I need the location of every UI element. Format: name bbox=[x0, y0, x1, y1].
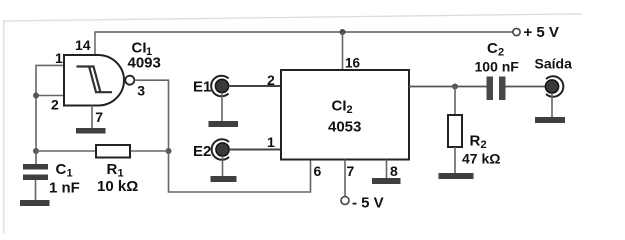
wire E2 to CI2 pin 1 bbox=[229, 149, 281, 151]
svg-text:R: R bbox=[470, 133, 481, 150]
input connector E1 outer arc bbox=[211, 76, 228, 97]
svg-text:6: 6 bbox=[314, 163, 322, 179]
svg-text:16: 16 bbox=[345, 56, 361, 71]
wire R2 top lead bbox=[454, 87, 456, 116]
svg-text:1: 1 bbox=[267, 134, 275, 150]
wire gate ground pin 7 bbox=[91, 106, 93, 129]
capacitor C2 plates bbox=[487, 77, 494, 101]
node junction top rail to pin 16 bbox=[340, 29, 346, 35]
svg-text:7: 7 bbox=[347, 163, 355, 179]
ground (E1) bbox=[209, 121, 239, 127]
wire feedback node down and to CI2 pin 6 bbox=[169, 151, 311, 192]
input connector E2 bbox=[216, 143, 229, 156]
svg-text:R: R bbox=[107, 161, 118, 178]
ground (C1) bbox=[20, 200, 50, 206]
ground (E2) bbox=[211, 176, 237, 182]
svg-text:CI: CI bbox=[332, 98, 347, 115]
node junction R1 right / output / pin 6 wire bbox=[166, 148, 172, 154]
svg-text:2: 2 bbox=[51, 97, 59, 113]
svg-text:14: 14 bbox=[75, 37, 91, 53]
svg-text:1: 1 bbox=[67, 168, 73, 180]
wire CI2 pin 8 ground lead bbox=[386, 160, 388, 179]
svg-text:1: 1 bbox=[55, 50, 63, 66]
wire CI2 output to C2 bbox=[409, 86, 487, 88]
faint scan border top bbox=[3, 14, 582, 21]
node junction output / R2 bbox=[452, 84, 458, 90]
svg-text:E2: E2 bbox=[193, 143, 211, 160]
svg-text:E1: E1 bbox=[193, 79, 211, 96]
svg-text:3: 3 bbox=[137, 83, 145, 99]
wire R1 right lead bbox=[130, 150, 169, 152]
svg-text:4093: 4093 bbox=[128, 55, 161, 72]
wire C2 to Saida bbox=[506, 86, 546, 88]
svg-text:2: 2 bbox=[498, 47, 504, 59]
wire R2 bottom lead bbox=[454, 147, 456, 173]
input connector E2 outer arc bbox=[212, 139, 229, 160]
power -5V terminal bbox=[341, 197, 349, 205]
resistor R2 bbox=[448, 115, 462, 147]
wire R1 left lead bbox=[36, 150, 96, 152]
ground (gate pin 7) bbox=[76, 128, 106, 134]
wire +5V top rail from CI1 pin 14 bbox=[95, 32, 513, 56]
svg-text:2: 2 bbox=[267, 72, 275, 88]
faint scan border left bbox=[3, 21, 5, 233]
wire E1 to CI2 pin 2 bbox=[229, 85, 281, 87]
capacitor C1 bottom lead bbox=[35, 180, 37, 200]
nand gate CI1 body (4093 Schmitt) bbox=[64, 55, 124, 106]
output bubble pin 3 bbox=[125, 76, 134, 85]
wire gate input pin 1 bbox=[36, 65, 64, 151]
svg-text:7: 7 bbox=[95, 109, 103, 125]
node junction pin2 / left vertical bbox=[33, 93, 39, 99]
output connector Saida bbox=[545, 80, 558, 93]
output connector Saida outer arc bbox=[546, 76, 563, 97]
ground (CI2 pin 8) bbox=[372, 178, 401, 184]
wire Saida ground lead bbox=[551, 93, 553, 117]
wire pin 16 of CI2 bbox=[342, 32, 344, 70]
wire gate output pin 3 to feedback node bbox=[134, 80, 168, 151]
svg-text:10 kΩ: 10 kΩ bbox=[97, 178, 138, 195]
wire gate input pin 2 bbox=[36, 95, 64, 97]
wire CI2 pin 7 to -5V bbox=[344, 160, 346, 197]
node junction C1 / R1 / feedback bbox=[33, 148, 39, 154]
svg-text:C: C bbox=[56, 161, 67, 178]
svg-text:4053: 4053 bbox=[328, 119, 361, 136]
wire E1 ground lead bbox=[221, 93, 223, 121]
svg-text:8: 8 bbox=[390, 163, 398, 179]
input connector E1 bbox=[215, 79, 228, 92]
svg-text:- 5 V: - 5 V bbox=[352, 195, 384, 212]
power +5V terminal bbox=[513, 28, 520, 35]
ground (Saida) bbox=[535, 117, 565, 123]
svg-text:2: 2 bbox=[481, 139, 487, 151]
resistor R1 bbox=[96, 145, 130, 158]
IC CI2 4053 box bbox=[281, 70, 409, 160]
svg-text:Saída: Saída bbox=[535, 56, 573, 72]
capacitor C1 plates bbox=[23, 164, 48, 170]
wire E2 ground lead bbox=[222, 156, 224, 176]
svg-text:+ 5 V: + 5 V bbox=[524, 24, 559, 41]
svg-text:C: C bbox=[487, 40, 498, 57]
schmitt trigger hysteresis symbol bbox=[77, 67, 113, 93]
svg-text:2: 2 bbox=[347, 104, 353, 116]
svg-text:1 nF: 1 nF bbox=[49, 180, 80, 197]
capacitor C1 lead bbox=[35, 151, 37, 164]
svg-text:47 kΩ: 47 kΩ bbox=[462, 151, 500, 167]
svg-text:100 nF: 100 nF bbox=[475, 59, 520, 75]
ground (R2) bbox=[439, 173, 474, 179]
